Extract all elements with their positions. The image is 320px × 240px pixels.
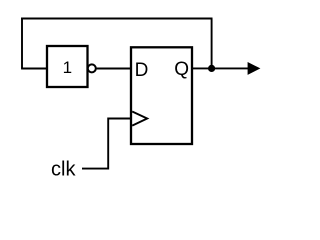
svg-text:D: D (135, 60, 149, 81)
wire Q output (192, 67, 248, 69)
wire feedback left vertical (21, 18, 23, 69)
output arrowhead (248, 62, 261, 75)
wire inverter output to D input (96, 68, 131, 70)
svg-text:1: 1 (63, 58, 72, 77)
wire feedback right vertical (211, 19, 213, 69)
node junction dot (208, 65, 215, 72)
svg-text:clk: clk (51, 159, 76, 181)
d-flip-flop U2 (131, 47, 192, 144)
wire feedback top horizontal (21, 18, 212, 20)
inverter U1 (47, 46, 96, 87)
wire clk to clock input (82, 119, 131, 169)
svg-text:Q: Q (174, 59, 189, 80)
wire inverter input (21, 68, 47, 70)
